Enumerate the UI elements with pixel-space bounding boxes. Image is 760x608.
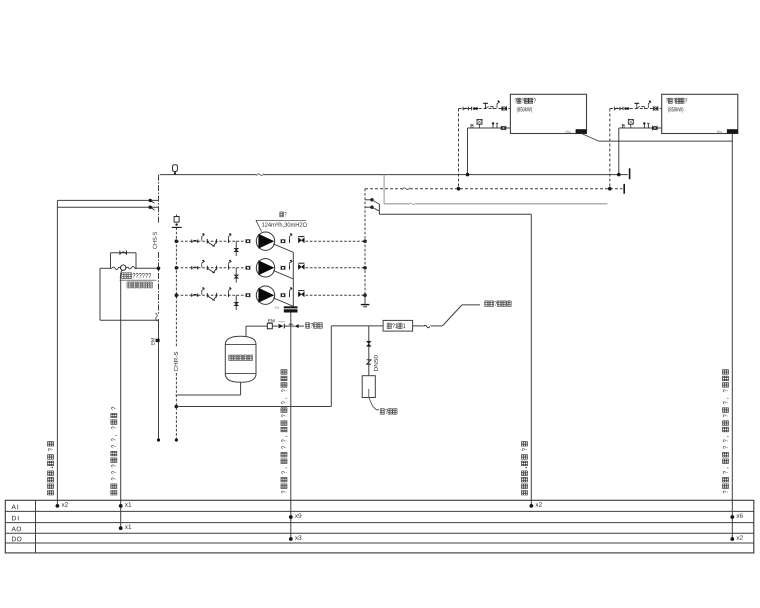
chiller 2 flow switch <box>628 119 633 124</box>
supply temperature sensor tap <box>149 199 152 202</box>
return temperature sensor tap <box>365 199 372 201</box>
pump 3 suction pipe <box>176 294 245 296</box>
AI point: supply temp/pressure x2 <box>56 504 60 508</box>
chiller 1 gauge tag <box>497 101 500 108</box>
chiller 2 supply flange <box>652 126 654 130</box>
pump discharge header (dashed riser) <box>364 189 366 296</box>
label: supply water temp & pressure <box>48 442 54 495</box>
chiller 2 return pipe (dashed) <box>610 108 662 110</box>
DO point: pumps x3 <box>289 537 293 541</box>
node: chiller 2 at return header <box>608 187 612 191</box>
I/O table row line <box>5 510 754 512</box>
pipe end dot CHS-S <box>157 438 160 441</box>
return header end cap <box>623 184 625 194</box>
signal wire: supply temp/pressure to AI <box>56 200 58 506</box>
DO point: chillers x2 <box>730 537 734 541</box>
supply pipe to sensors (lower) <box>57 206 158 208</box>
I/O table frame <box>5 500 754 553</box>
chiller 2 supply pipe <box>619 127 662 129</box>
dosing branch pipe (bottom) <box>176 406 331 408</box>
I/O table row line <box>5 532 754 534</box>
chiller 1 flow switch <box>477 119 482 124</box>
pump status sensor block <box>284 306 298 312</box>
secondary supply pipe (gray) <box>383 175 385 204</box>
bypass return pipe (bottom) <box>100 319 155 321</box>
pump 1 suction butterfly valve <box>191 239 193 243</box>
bypass pipe with motorized valve <box>100 267 112 269</box>
tank top connection pipe <box>245 326 247 336</box>
chiller unit 1 box <box>510 94 586 133</box>
DI point: chillers x6 <box>730 515 734 519</box>
label: bypass valve description <box>120 273 122 278</box>
chiller 2 thermometer <box>636 103 638 108</box>
chiller 2 P/T sensors <box>643 124 645 128</box>
node: pump 2 suction at CHR-S riser <box>175 266 179 270</box>
pump 3 Y-strainer <box>208 296 217 300</box>
pump signal collector wire <box>292 252 294 306</box>
label: chiller run status/fault/hand-auto/start-stop <box>722 370 728 494</box>
node: pump 3 discharge at header <box>363 293 367 297</box>
pump 1 strainer drain valve <box>235 241 237 256</box>
pump 2 inlet union <box>245 266 247 270</box>
label CHR-S <box>172 348 181 373</box>
pump 2 discharge pipe (dashed) <box>306 267 366 269</box>
label: tank name <box>229 355 233 361</box>
pump 3 suction pressure gauge tag <box>202 288 205 295</box>
pump 3 check valve <box>298 290 304 292</box>
chiller 1 supply valve tag <box>471 125 473 128</box>
chiller 2 gauge tag <box>648 101 651 108</box>
pump 2 inlet gauge tag <box>229 260 232 267</box>
diaphragm pressure tank <box>225 336 256 382</box>
chiller 1 P/T sensors <box>492 124 494 128</box>
supply pressure sensor tap <box>149 206 152 209</box>
node: pump 1 suction at CHR-S riser <box>175 239 179 243</box>
signal leader from pump 2 motor <box>273 270 293 279</box>
solenoid valve EM <box>267 323 272 329</box>
pump 1 (circle with triangle) <box>256 232 274 250</box>
chiller 1 return flange <box>501 106 503 110</box>
chiller 2 return flange <box>652 106 654 110</box>
bypass loop manual valve <box>119 250 121 255</box>
riser CHS-S (dash-dot) <box>158 175 160 224</box>
dosing union <box>367 360 371 364</box>
pump 3 strainer drain valve <box>235 295 237 310</box>
node: chiller 1 at supply header <box>466 173 470 177</box>
pump 3 outlet union <box>280 293 282 297</box>
dosing branch pipe (top) <box>331 325 383 327</box>
pump 1 outlet gauge tag <box>290 234 293 241</box>
row label AO <box>12 527 16 532</box>
chiller 1 gateway interface <box>576 129 587 133</box>
pump 2 suction pressure gauge tag <box>202 260 205 267</box>
return pressure sensor tap <box>365 206 372 208</box>
pump 3 inlet union <box>245 293 247 297</box>
pump 2 strainer drain valve <box>235 268 237 283</box>
node: dosing branch at CHR-S riser <box>175 405 179 409</box>
pump 3 suction butterfly valve <box>191 293 193 297</box>
chiller 2 supply valve tag <box>622 125 624 128</box>
chiller 1 return pipe unions <box>471 107 473 111</box>
pump 1 Y-strainer <box>208 242 217 246</box>
signal leader from pump 3 motor <box>273 298 293 307</box>
node: chiller 1 at return header <box>457 187 461 191</box>
chiller 1 supply riser <box>467 128 469 175</box>
row label DO <box>12 537 16 542</box>
AO point: bypass x1 <box>119 526 123 530</box>
chiller 2 name label <box>666 98 668 102</box>
label: dosing device <box>380 409 384 415</box>
pump 2 outlet gauge tag <box>290 260 293 267</box>
label: return water temp & pressure <box>521 442 527 495</box>
pump 3 discharge pipe (dashed) <box>306 294 366 296</box>
signal wire: bypass valve control to AI/AO <box>121 270 122 277</box>
dosing check valve (vertical) <box>366 341 371 346</box>
chilled water return header pipe (dashed) <box>365 188 402 190</box>
automatic air vent on CHR-S riser <box>176 215 178 217</box>
bypass motorized valve actuator <box>121 265 126 270</box>
supply header end cap <box>629 168 631 179</box>
chiller 1 return riser (dashed) <box>458 109 460 189</box>
flexible joint <box>424 325 430 328</box>
node: pump 3 suction at CHR-S riser <box>175 293 179 297</box>
pump 1 suction pipe <box>176 240 245 242</box>
automatic air vent on supply header <box>173 165 178 172</box>
dosing branch pipe (up leg) <box>330 326 332 407</box>
I/O table row line <box>5 522 754 524</box>
pump 2 suction butterfly valve <box>191 266 193 270</box>
chiller 1 supply flange <box>500 126 502 130</box>
quick-fill connection leader <box>442 305 462 326</box>
water meter box <box>383 320 413 331</box>
pipe end dot CHR-S <box>175 438 178 441</box>
label CHS-S <box>153 232 157 249</box>
bypass manual valve loop pipe <box>110 253 112 269</box>
pump 2 (circle with triangle) <box>256 259 274 277</box>
chiller 2 return pipe unions <box>622 107 624 111</box>
dosing device vertical pipe <box>368 326 370 376</box>
pump 1 discharge pipe (dashed) <box>306 240 366 242</box>
chiller 2 return pipe valve <box>613 107 615 111</box>
make-up check valve <box>279 324 284 328</box>
chiller 1 return pipe (dashed) <box>459 108 511 110</box>
pump 1 suction pressure gauge tag <box>202 234 205 241</box>
I/O table row line <box>5 542 754 544</box>
pump 2 suction pipe <box>176 267 245 269</box>
label: pump run status/fault/hand-auto/start-stop <box>281 370 287 494</box>
flow switch EM on CHS-S riser <box>156 339 160 342</box>
chiller 2 balance cock <box>641 107 644 110</box>
node: pump 2 discharge at header <box>363 266 367 270</box>
pump 2 Y-strainer <box>208 269 217 273</box>
chiller unit 2 box <box>662 94 738 133</box>
node: chiller 2 at supply header <box>617 173 621 177</box>
AI point: return temp/pressure x2 <box>529 504 533 508</box>
pump 1 inlet union <box>245 239 247 243</box>
label: bypass valve control / feedback <box>111 407 117 495</box>
supply pipe to sensors (upper) <box>57 199 158 201</box>
make-up water pipe <box>246 325 267 327</box>
tank bottom connection pipe <box>240 382 242 395</box>
signal leader from pump 1 motor <box>273 244 293 253</box>
label DN50 <box>374 355 378 371</box>
chiller 1 balance cock <box>490 107 493 110</box>
pump 3 (circle with triangle) <box>256 286 274 304</box>
make-up water flow arrow <box>295 324 299 328</box>
chilled water supply header pipe (top) <box>160 174 256 176</box>
AI point: bypass x1 <box>119 504 123 508</box>
I/O table label divider <box>35 500 37 553</box>
node: bypass to CHS-S riser <box>157 267 161 271</box>
riser CHR-S (dashed) <box>175 227 177 347</box>
pump 1 check valve <box>298 236 304 238</box>
row label AI <box>12 505 16 510</box>
chiller 2 supply riser <box>618 128 620 175</box>
chiller 1 supply pipe <box>468 127 511 129</box>
pump 3 inlet gauge tag <box>229 288 232 295</box>
chiller 2 gateway interface <box>727 129 738 133</box>
comm wire from chiller 1 gateway <box>582 134 599 142</box>
pump 2 outlet union <box>280 266 282 270</box>
chiller 1 return pipe valve <box>462 107 464 111</box>
row label DI <box>12 516 16 521</box>
signal wire: pumps to DI/DO table <box>290 313 292 540</box>
pump 1 outlet union <box>280 239 282 243</box>
pump 3 outlet gauge tag <box>290 288 293 295</box>
pump group label leader <box>256 219 306 221</box>
pump 1 inlet gauge tag <box>229 234 232 241</box>
label: quick fill water connection <box>485 301 489 307</box>
pump header drain cap <box>361 304 370 306</box>
pump group label text <box>280 212 284 217</box>
dosing device (chemical pot feeder) <box>362 376 375 398</box>
leader to dosing label <box>369 398 379 410</box>
label: make-up water pipe <box>306 323 310 329</box>
DI point: pumps x9 <box>289 515 293 519</box>
pump 2 check valve <box>298 262 304 264</box>
chiller 1 thermometer <box>485 103 487 108</box>
chiller 2 return riser (dashed) <box>609 109 611 189</box>
bypass return pipe (left leg) <box>99 268 101 320</box>
chiller 1 name label <box>515 98 517 102</box>
signal wire: return temp/pressure across <box>379 213 531 215</box>
signal wire jogs from return sensors <box>372 200 379 204</box>
node: pump 1 discharge at header <box>363 239 367 243</box>
signal wire: down to AI table <box>530 214 532 506</box>
comm wire from chiller 2 gateway down to table <box>731 134 733 540</box>
crossing tick at signal wire <box>289 323 293 325</box>
